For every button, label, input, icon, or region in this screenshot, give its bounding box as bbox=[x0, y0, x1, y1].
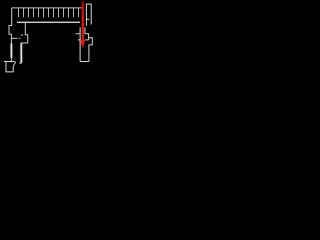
bright corridor walls (glowing) bbox=[11, 44, 21, 64]
left outer wall (jogged) bbox=[9, 8, 12, 62]
vestibule right wall extension bbox=[88, 38, 90, 40]
stairs top rail bbox=[12, 7, 82, 9]
inner corridor wall bracket bbox=[21, 22, 28, 63]
route stem bbox=[82, 1, 84, 40]
corridor wall foot bbox=[19, 62, 21, 64]
top-right h-wall bbox=[86, 4, 91, 26]
arrow fade tail bbox=[82, 47, 83, 50]
bright wall corridor bbox=[20, 44, 22, 64]
vestibule lower wall right piece bbox=[85, 39, 89, 41]
right door jamb bbox=[84, 27, 86, 33]
doorway dash mid bbox=[21, 34, 23, 36]
stairs bottom rail bbox=[17, 21, 80, 23]
bright wall left bbox=[10, 44, 12, 59]
right wall with niche bbox=[85, 34, 92, 62]
arrowhead bbox=[80, 40, 85, 48]
exit room (bottom-left) bbox=[6, 62, 13, 72]
red route arrow glow bbox=[80, 1, 85, 47]
stair treads (ticks) bbox=[19, 8, 79, 17]
background bbox=[0, 0, 100, 75]
wall stub T left bbox=[11, 37, 17, 39]
door leaf diagonal bbox=[13, 62, 15, 67]
h-wall stub bbox=[86, 18, 89, 20]
vestibule lower wall left piece bbox=[78, 39, 81, 41]
red route arrow bbox=[80, 1, 85, 49]
door leaf dash bbox=[19, 37, 21, 39]
bottom-left wall horizontal bbox=[4, 61, 15, 63]
wall stub left of door bbox=[76, 33, 81, 35]
right room left wall + jamb bbox=[79, 27, 81, 61]
room bottom wall bbox=[80, 61, 89, 63]
